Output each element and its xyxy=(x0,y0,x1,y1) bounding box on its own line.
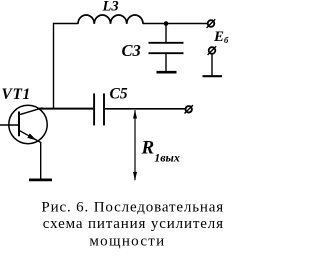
svg-text:C3: C3 xyxy=(122,41,141,60)
svg-text:мощности: мощности xyxy=(89,233,165,249)
svg-text:L3: L3 xyxy=(102,0,119,15)
svg-text:R1вых: R1вых xyxy=(141,138,180,165)
svg-text:VT1: VT1 xyxy=(2,86,31,103)
svg-text:C5: C5 xyxy=(110,85,128,102)
svg-text:Eб: Eб xyxy=(213,29,229,45)
svg-text:схема питания усилителя: схема питания усилителя xyxy=(43,216,224,232)
svg-text:Рис. 6. Последовательная: Рис. 6. Последовательная xyxy=(41,199,224,215)
